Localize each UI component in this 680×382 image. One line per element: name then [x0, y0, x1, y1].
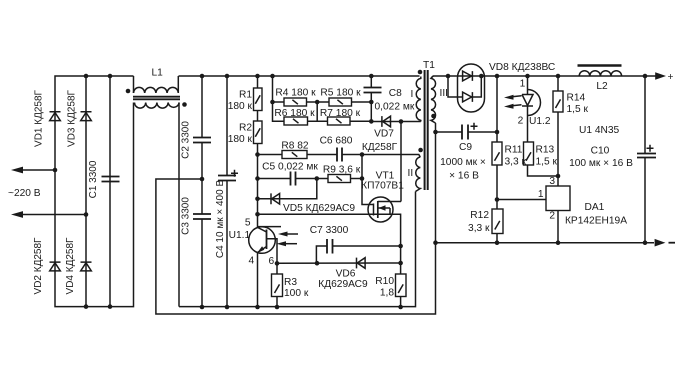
svg-text:100 к: 100 к — [284, 288, 309, 299]
svg-text:VD5 КД629АС9: VD5 КД629АС9 — [283, 203, 355, 214]
svg-text:3,3 к: 3,3 к — [468, 223, 490, 234]
svg-text:1: 1 — [520, 79, 526, 90]
svg-text:+: + — [668, 72, 674, 83]
svg-text:R2: R2 — [239, 123, 252, 134]
svg-text:~220 В: ~220 В — [8, 188, 41, 199]
svg-text:3: 3 — [549, 176, 555, 187]
svg-text:R1: R1 — [239, 90, 252, 101]
svg-text:1,8: 1,8 — [380, 288, 394, 299]
svg-text:C7 3300: C7 3300 — [310, 225, 349, 236]
svg-text:C8: C8 — [389, 88, 402, 99]
svg-text:VD4 КД258Г: VD4 КД258Г — [65, 237, 76, 295]
svg-text:R4 180 к: R4 180 к — [275, 88, 316, 99]
svg-text:C6 680: C6 680 — [320, 136, 353, 147]
svg-text:C1 3300: C1 3300 — [88, 160, 99, 198]
svg-text:C5 0,022 мк: C5 0,022 мк — [262, 162, 318, 173]
svg-text:R7 180 к: R7 180 к — [320, 108, 361, 119]
svg-text:U1 4N35: U1 4N35 — [579, 125, 620, 136]
svg-text:VD1 КД258Г: VD1 КД258Г — [34, 89, 45, 147]
svg-text:C4 10 мк × 400 В: C4 10 мк × 400 В — [215, 180, 226, 259]
svg-text:2: 2 — [549, 211, 555, 222]
svg-text:U1.1: U1.1 — [229, 230, 251, 241]
svg-text:КР142ЕН19А: КР142ЕН19А — [565, 216, 627, 227]
svg-text:100 мк × 16 В: 100 мк × 16 В — [569, 158, 633, 169]
svg-text:DA1: DA1 — [585, 202, 605, 213]
svg-text:4: 4 — [249, 256, 255, 267]
svg-text:VD3 КД258Г: VD3 КД258Г — [67, 89, 78, 147]
svg-text:R8 82: R8 82 — [281, 141, 309, 152]
svg-text:2: 2 — [518, 116, 524, 127]
svg-text:1000 мк ×: 1000 мк × — [440, 157, 486, 168]
svg-text:C3 3300: C3 3300 — [181, 197, 192, 235]
svg-text:R13: R13 — [536, 145, 555, 156]
svg-text:R10: R10 — [375, 276, 394, 287]
svg-text:VD6: VD6 — [336, 269, 356, 280]
svg-text:I: I — [411, 89, 414, 100]
svg-text:R12: R12 — [470, 210, 489, 221]
svg-text:R6 180 к: R6 180 к — [274, 108, 315, 119]
svg-text:VD8 КД238ВС: VD8 КД238ВС — [489, 62, 555, 73]
svg-text:R9 3,6 к: R9 3,6 к — [323, 165, 361, 176]
svg-text:0,022 мк: 0,022 мк — [375, 102, 415, 113]
svg-text:1,5 к: 1,5 к — [567, 104, 589, 115]
svg-text:R14: R14 — [567, 93, 586, 104]
svg-text:III: III — [440, 88, 449, 99]
svg-text:C9: C9 — [459, 142, 472, 153]
svg-text:R5 180 к: R5 180 к — [320, 88, 361, 99]
svg-text:180 к: 180 к — [228, 101, 253, 112]
svg-text:6: 6 — [269, 256, 275, 267]
svg-text:5: 5 — [245, 218, 251, 229]
svg-text:VD2 КД258Г: VD2 КД258Г — [33, 237, 44, 295]
svg-text:R3: R3 — [284, 277, 297, 288]
svg-text:C2 3300: C2 3300 — [181, 121, 192, 159]
svg-text:180 к: 180 к — [228, 134, 253, 145]
svg-text:T1: T1 — [423, 60, 435, 71]
svg-text:L2: L2 — [596, 81, 608, 92]
svg-text:3,3 к: 3,3 к — [505, 157, 527, 168]
svg-text:VD7: VD7 — [374, 129, 394, 140]
svg-text:R11: R11 — [505, 145, 523, 156]
svg-text:КП707В1: КП707В1 — [361, 181, 404, 192]
svg-text:L1: L1 — [152, 68, 164, 79]
svg-text:1,5 к: 1,5 к — [536, 157, 558, 168]
svg-text:U1.2: U1.2 — [529, 116, 551, 127]
svg-text:КД258Г: КД258Г — [362, 142, 398, 153]
svg-text:× 16 В: × 16 В — [449, 171, 479, 182]
svg-text:C10: C10 — [591, 146, 610, 157]
svg-text:II: II — [408, 168, 414, 179]
svg-text:1: 1 — [538, 189, 544, 200]
svg-text:КД629АС9: КД629АС9 — [318, 279, 368, 290]
